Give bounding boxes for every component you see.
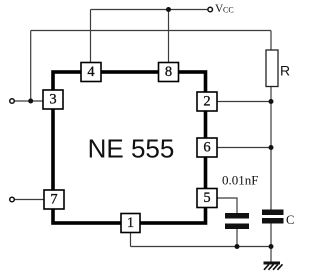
terminal Vcc open circle (208, 7, 213, 12)
svg-text:0.01nF: 0.01nF (222, 173, 258, 188)
svg-text:1: 1 (127, 215, 134, 231)
svg-text:5: 5 (203, 190, 210, 206)
wire pin3 terminal lead (15, 100, 44, 102)
svg-text:3: 3 (49, 92, 56, 108)
label Vcc (215, 3, 234, 15)
svg-text:NE 555: NE 555 (88, 134, 175, 164)
pin 7 box (44, 190, 64, 209)
node junction pin6/rail (269, 145, 274, 150)
svg-text:6: 6 (203, 140, 210, 156)
svg-text:7: 7 (50, 192, 57, 208)
wire ground bus horizontal (131, 246, 272, 248)
pin 1 box (121, 214, 140, 233)
svg-text:CC: CC (223, 6, 234, 15)
ground (264, 262, 283, 270)
pin 2 box (197, 92, 217, 111)
svg-text:R: R (280, 63, 290, 79)
wire output rail horizontal top (31, 30, 271, 32)
wire right rail vertical (R bottom to C top) (270, 87, 272, 210)
wire ground stem (270, 247, 272, 263)
node junction top (pin8/Vcc) (166, 7, 171, 12)
wire output rail left vertical (30, 31, 32, 102)
wire pin5 lead to 0.01nF (217, 198, 237, 213)
terminal pin3 output open circle (10, 99, 15, 104)
pin 4 box (81, 63, 101, 82)
wire pin6 to right rail (217, 147, 271, 149)
wire pin7 terminal lead (15, 199, 45, 201)
pin 8 box (159, 63, 179, 82)
svg-text:2: 2 (203, 94, 210, 110)
node junction 0.01nF/ground bus (235, 244, 240, 249)
svg-text:C: C (286, 213, 294, 227)
node junction pin2/rail (269, 99, 274, 104)
capacitor C3 0.01nF plates (225, 213, 249, 229)
wire pin4 vertical drop (90, 10, 92, 63)
node junction ground (269, 244, 274, 249)
pin 3 box (43, 90, 63, 109)
pin 6 box (197, 138, 217, 157)
wire C bottom to ground junction (270, 224, 272, 247)
svg-text:4: 4 (87, 64, 95, 80)
op-amp U1 NE555 IC body (53, 72, 206, 223)
wire pin8 vertical drop (168, 10, 170, 63)
terminal pin7 open circle (10, 197, 15, 202)
node junction pin3 output (28, 99, 33, 104)
wire pin1 bottom drop (130, 233, 132, 247)
capacitor C plates (262, 210, 284, 224)
wire resistor top vertical (270, 31, 272, 51)
wire 0.01nF bottom drop (236, 229, 238, 247)
wire Vcc horizontal (pin4 top to Vcc terminal) (91, 9, 209, 11)
resistor R (266, 50, 278, 87)
svg-text:8: 8 (165, 64, 172, 80)
wire pin2 to right rail (217, 101, 271, 103)
pin 5 box (197, 189, 217, 208)
